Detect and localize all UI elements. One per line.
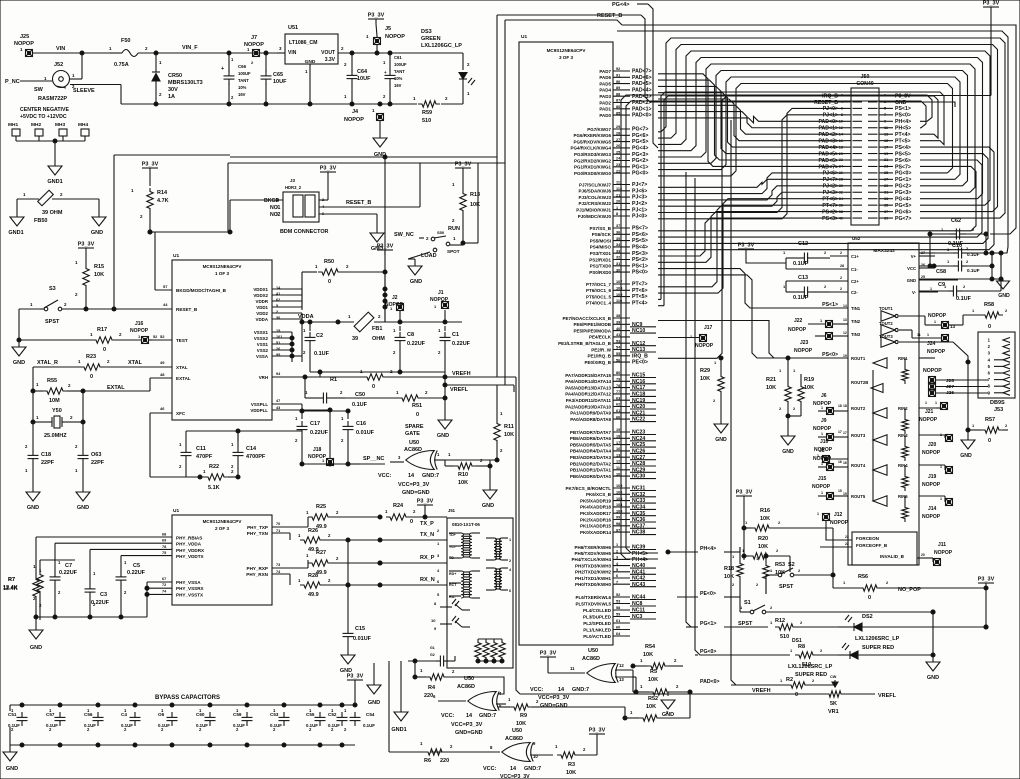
svg-text:PS<7>: PS<7> [632, 226, 648, 232]
svg-text:U52: U52 [852, 236, 861, 241]
ground under BDM [370, 233, 384, 252]
svg-text:MBRS130LT3: MBRS130LT3 [168, 80, 203, 86]
ground db9 [960, 437, 975, 459]
svg-text:4.7K: 4.7K [157, 198, 169, 204]
svg-text:PJ<1>: PJ<1> [823, 113, 838, 119]
svg-text:10K: 10K [760, 516, 770, 522]
svg-text:J4: J4 [352, 109, 359, 115]
resistor R19 10K [788, 368, 814, 416]
chip3 pins PE [558, 314, 656, 366]
svg-text:P3_3V: P3_3V [455, 162, 472, 168]
svg-text:U1: U1 [173, 508, 179, 514]
svg-text:470PF: 470PF [196, 454, 213, 460]
svg-text:J15: J15 [818, 476, 827, 482]
svg-text:J5: J5 [385, 26, 391, 32]
svg-text:0.1UF: 0.1UF [196, 723, 208, 728]
svg-text:GREEN: GREEN [421, 36, 441, 42]
svg-text:VDDA: VDDA [298, 314, 314, 320]
svg-text:22PF: 22PF [91, 460, 105, 466]
chip U52 MAX3243 [848, 236, 919, 565]
svg-text:FB1: FB1 [372, 326, 382, 332]
svg-text:GND: GND [91, 230, 103, 236]
switch S50 RUN/LOAD SPDT [394, 163, 478, 266]
svg-text:PHY_RBIAS: PHY_RBIAS [176, 536, 202, 541]
svg-text:PS<4>: PS<4> [632, 245, 648, 251]
svg-text:VREFH: VREFH [752, 688, 771, 694]
svg-text:R11: R11 [504, 424, 514, 430]
svg-text:VCC=P3_3V: VCC=P3_3V [500, 774, 530, 779]
bus PS0 to ROUT1 [658, 275, 768, 358]
pin BKGD/MODC/TAGHI_B [155, 284, 227, 293]
svg-text:NOPOP: NOPOP [923, 368, 942, 374]
svg-text:ROUT4: ROUT4 [851, 463, 866, 468]
svg-text:TEST: TEST [176, 338, 188, 343]
svg-text:GND:7: GND:7 [572, 687, 589, 693]
svg-text:RX_N: RX_N [420, 577, 435, 583]
svg-text:0.1UF: 0.1UF [956, 296, 972, 302]
svg-text:C10: C10 [952, 243, 962, 249]
svg-text:R5: R5 [650, 669, 657, 675]
svg-text:0.22UF: 0.22UF [59, 570, 78, 576]
text DS2 part [855, 636, 900, 651]
svg-text:R51: R51 [412, 403, 422, 409]
svg-text:MH2: MH2 [31, 122, 41, 128]
svg-text:16V: 16V [238, 92, 246, 97]
svg-text:PB2/ADDR2/DATA2: PB2/ADDR2/DATA2 [570, 461, 612, 466]
svg-text:14: 14 [843, 304, 847, 308]
wire gnd max3243 [919, 253, 1003, 291]
connector J13 NOPOP [899, 313, 956, 329]
svg-text:R15: R15 [94, 264, 104, 270]
ground phy [29, 617, 43, 651]
svg-text:GND:7: GND:7 [479, 713, 496, 719]
svg-text:PAD3: PAD3 [599, 94, 611, 99]
svg-text:BDM CONNECTOR: BDM CONNECTOR [280, 229, 329, 235]
svg-text:PAD4: PAD4 [599, 88, 611, 93]
svg-text:VREFH: VREFH [452, 371, 471, 377]
svg-text:43: 43 [276, 406, 280, 410]
svg-text:FB50: FB50 [34, 218, 47, 224]
svg-text:VREFL: VREFL [450, 387, 469, 393]
svg-text:PJ2/CRS/KWJ2: PJ2/CRS/KWJ2 [578, 201, 611, 206]
capacitor C66 100UF TANT [221, 53, 251, 104]
svg-text:PT<4>: PT<4> [632, 301, 648, 307]
svg-text:PS3/TXD1: PS3/TXD1 [590, 251, 612, 256]
resistor R17 0 [19, 327, 141, 353]
connector J22 NOPOP [788, 318, 848, 333]
capacitor C2 0.1UF [303, 320, 330, 372]
svg-text:3 OF 3: 3 OF 3 [559, 55, 573, 60]
svg-text:LT1086_CM: LT1086_CM [289, 40, 317, 46]
svg-text:J12: J12 [834, 512, 843, 518]
svg-text:TX_N: TX_N [420, 532, 434, 538]
svg-text:G1: G1 [430, 646, 435, 650]
svg-text:R27: R27 [316, 550, 326, 556]
svg-text:IRQ_B: IRQ_B [632, 353, 648, 359]
capacitor C5 0.22UF [116, 556, 146, 617]
svg-text:MH4: MH4 [78, 122, 88, 128]
svg-text:CR50: CR50 [168, 73, 182, 79]
svg-text:C17: C17 [310, 421, 320, 427]
svg-text:0.1UF: 0.1UF [363, 723, 375, 728]
svg-text:GND1: GND1 [8, 230, 23, 236]
svg-text:48: 48 [160, 372, 165, 377]
svg-text:PH<4>: PH<4> [632, 557, 648, 563]
svg-text:VCC:: VCC: [530, 687, 544, 693]
MAX3243 TIN TOUT [843, 304, 893, 339]
ground GND1 mid [391, 661, 408, 733]
svg-text:PK6/XCS_B: PK6/XCS_B [586, 492, 612, 497]
resistor R53 10K [756, 554, 785, 594]
svg-text:10M: 10M [49, 398, 60, 404]
J51 G cap [408, 646, 455, 667]
svg-text:PS<1>: PS<1> [895, 106, 911, 112]
svg-text:R3: R3 [568, 762, 575, 768]
capacitor C65 10UF [261, 53, 288, 104]
connector J11 NOPOP [930, 542, 953, 566]
wire J50 gnd right [893, 102, 955, 107]
net PE<0> [677, 591, 740, 597]
capacitor C50 0.1UF [303, 375, 368, 408]
svg-text:19: 19 [843, 354, 847, 358]
svg-text:PK0/XADDR14: PK0/XADDR14 [580, 530, 612, 535]
svg-text:R4: R4 [428, 685, 436, 691]
svg-text:J53: J53 [994, 407, 1003, 413]
svg-text:510: 510 [780, 634, 789, 640]
svg-text:C3: C3 [100, 592, 107, 598]
capacitor C11 470PF [179, 441, 213, 477]
svg-text:PHY_TXP: PHY_TXP [247, 525, 268, 530]
net label RESET_B top [597, 13, 845, 102]
svg-text:PHY_VSSTX: PHY_VSSTX [176, 592, 204, 597]
svg-text:NOPOP: NOPOP [430, 297, 449, 303]
svg-text:PAD<4>: PAD<4> [818, 145, 838, 151]
svg-text:NOPOP: NOPOP [927, 349, 946, 355]
svg-text:PE1/IRQ_B: PE1/IRQ_B [587, 354, 611, 359]
ground GND bypass right [367, 663, 381, 706]
svg-text:GND: GND [998, 293, 1010, 299]
svg-text:AC86D: AC86D [457, 684, 475, 690]
svg-text:73: 73 [276, 563, 280, 567]
svg-text:PA7/ADDR15/DATA15: PA7/ADDR15/DATA15 [565, 373, 611, 378]
resistor R10 10K [434, 452, 492, 486]
svg-text:P3_3V: P3_3V [540, 651, 557, 657]
svg-text:PG<6>: PG<6> [632, 133, 648, 139]
svg-text:PG<0>: PG<0> [632, 171, 648, 177]
FORCEON block [845, 532, 930, 565]
svg-text:2: 2 [840, 287, 842, 291]
svg-text:0: 0 [410, 519, 413, 525]
svg-text:PH5/TXDV/KWH5: PH5/TXDV/KWH5 [574, 551, 611, 556]
svg-text:0: 0 [795, 692, 798, 698]
svg-text:LXL1206SRC_LP: LXL1206SRC_LP [855, 636, 900, 642]
svg-text:PG<5>: PG<5> [632, 139, 648, 145]
svg-text:GND:7: GND:7 [422, 473, 439, 479]
svg-text:PT<5>: PT<5> [632, 294, 648, 300]
svg-text:GND: GND [77, 505, 89, 511]
svg-text:RIN4: RIN4 [898, 463, 908, 468]
wire reset row [86, 155, 230, 311]
svg-text:NOPOP: NOPOP [919, 417, 938, 423]
svg-text:0.75A: 0.75A [114, 62, 129, 68]
svg-text:25.0MHZ: 25.0MHZ [44, 433, 67, 439]
svg-text:C51: C51 [8, 712, 17, 717]
svg-text:14: 14 [466, 713, 473, 719]
svg-text:PAD<1>: PAD<1> [818, 126, 838, 132]
right NOPOP J20 [922, 433, 953, 456]
svg-text:PT<7>: PT<7> [822, 203, 838, 209]
svg-text:FORCEON: FORCEON [856, 536, 880, 541]
svg-text:S3: S3 [49, 286, 56, 292]
svg-text:R7: R7 [8, 577, 15, 583]
svg-text:R57: R57 [985, 417, 995, 423]
resistor R56 NO_POP [833, 574, 988, 601]
connector J18 NOPOP [308, 447, 334, 466]
svg-text:R55: R55 [47, 378, 57, 384]
ferrite FB50 39 OHM [17, 190, 99, 224]
bus PS1 to TIN1 [658, 269, 808, 308]
note center negative [20, 107, 69, 120]
svg-text:S2: S2 [788, 562, 795, 568]
wire power gnd rail [121, 102, 392, 106]
svg-text:P3_3V: P3_3V [736, 490, 753, 496]
svg-text:17: 17 [838, 430, 842, 434]
resistor R1 [310, 369, 447, 390]
svg-text:PJ0/MDC/KWJ0: PJ0/MDC/KWJ0 [578, 214, 612, 219]
svg-text:J14: J14 [928, 506, 937, 512]
wire reset top rail [230, 155, 497, 159]
svg-text:PS<4>: PS<4> [895, 145, 911, 151]
svg-text:C13: C13 [798, 275, 808, 281]
svg-text:PS6/SCK: PS6/SCK [592, 232, 612, 237]
svg-text:VDDX1: VDDX1 [253, 287, 268, 292]
BDM connector J3 HDR3_2 [264, 178, 377, 235]
svg-text:VCC: VCC [907, 266, 916, 271]
svg-text:MH1: MH1 [8, 122, 18, 128]
svg-text:70: 70 [276, 522, 280, 526]
svg-text:10: 10 [431, 618, 436, 623]
wire VDDA row [298, 313, 354, 324]
ground R29 [714, 424, 728, 443]
svg-text:C2-: C2- [851, 290, 858, 295]
wire trunk PG0 down [695, 178, 724, 655]
svg-text:TANT: TANT [238, 78, 249, 83]
svg-text:10K: 10K [724, 574, 734, 580]
svg-text:1A: 1A [168, 94, 175, 100]
resistor R5 10K [633, 669, 692, 695]
svg-text:PG<5>: PG<5> [895, 203, 911, 209]
svg-text:PS1/TXD0: PS1/TXD0 [590, 264, 612, 269]
svg-text:PT4/IOC1_4: PT4/IOC1_4 [586, 301, 612, 306]
svg-text:GND: GND [368, 700, 380, 706]
svg-text:Y50: Y50 [52, 408, 62, 414]
net PS<0> to ROUT1 [768, 352, 848, 358]
svg-text:PJ<2>: PJ<2> [823, 184, 838, 190]
connector J2 NOPOP [385, 295, 404, 311]
svg-text:0.01UF: 0.01UF [353, 636, 372, 642]
svg-text:U50: U50 [409, 440, 419, 446]
svg-text:44: 44 [163, 302, 168, 307]
J51 choke TX [486, 538, 511, 563]
svg-text:GND:7: GND:7 [524, 766, 541, 772]
svg-text:J20: J20 [928, 442, 937, 448]
svg-text:1: 1 [817, 512, 819, 516]
svg-text:PE5/PIPE0/MODA: PE5/PIPE0/MODA [573, 328, 611, 333]
svg-text:R24: R24 [393, 503, 404, 509]
svg-text:DS1: DS1 [792, 638, 802, 644]
svg-text:PG<0>: PG<0> [700, 649, 716, 655]
svg-text:R17: R17 [97, 327, 107, 333]
svg-text:R16: R16 [760, 508, 770, 514]
svg-text:15: 15 [843, 492, 847, 496]
svg-text:PHY_RXN: PHY_RXN [246, 572, 268, 577]
svg-text:PS0/RXD0: PS0/RXD0 [589, 270, 611, 275]
power P3_3V far right [978, 577, 995, 589]
resistor R59 510 [390, 96, 463, 124]
pin RESET_B [86, 302, 198, 312]
resistor R9 10K [498, 697, 540, 727]
svg-text:SPARE: SPARE [405, 424, 424, 430]
svg-text:PB5/ADDR5/DATA5: PB5/ADDR5/DATA5 [570, 442, 612, 447]
svg-text:PHY_VDDA: PHY_VDDA [176, 542, 202, 547]
capacitor C15 0.01UF [343, 540, 372, 655]
svg-text:SW: SW [34, 87, 44, 93]
ground at C15 [340, 655, 355, 674]
svg-text:20: 20 [921, 553, 925, 557]
LED DS3 GREEN LXL1206GC_LP [421, 29, 475, 104]
svg-text:XTAL_R: XTAL_R [37, 360, 58, 366]
svg-text:C16: C16 [356, 421, 366, 427]
svg-text:PH2/TXD2/KWH2: PH2/TXD2/KWH2 [575, 570, 612, 575]
gate U50 spare AC86D [363, 451, 499, 470]
svg-text:PAD5: PAD5 [599, 81, 611, 86]
svg-text:GATE: GATE [405, 431, 420, 437]
svg-text:P3_3V: P3_3V [142, 162, 159, 168]
power P3_3V gate top [540, 651, 557, 674]
pin XTAL [126, 360, 188, 370]
svg-text:PG<1>: PG<1> [895, 177, 911, 183]
svg-text:TD+: TD+ [449, 533, 456, 537]
svg-text:0: 0 [328, 279, 331, 285]
svg-text:PS<6>: PS<6> [632, 232, 648, 238]
svg-text:GND=GND: GND=GND [455, 730, 483, 736]
chip U1 MC9S12NE64CPV 3 OF 3 [519, 34, 613, 645]
chip U1 MC9S12NE64CPV 1 OF 3 [172, 253, 272, 420]
svg-text:NOPOP: NOPOP [922, 450, 941, 456]
svg-text:PAD<5>: PAD<5> [818, 151, 838, 157]
capacitor C7 0.22UF [50, 543, 78, 617]
chip3 pins PJ [576, 181, 647, 220]
svg-text:PHY_RXP: PHY_RXP [247, 566, 268, 571]
svg-text:DS2: DS2 [862, 614, 873, 620]
svg-text:R28: R28 [308, 573, 318, 579]
svg-text:PL2/SPDLED: PL2/SPDLED [583, 621, 612, 626]
svg-text:0: 0 [90, 374, 93, 380]
chip3 pins PS [589, 224, 648, 276]
ground at S3 [12, 340, 26, 366]
wire VREFH [445, 371, 520, 694]
wire S2 to edge [794, 574, 833, 576]
svg-text:0: 0 [868, 595, 871, 601]
svg-text:PS<5>: PS<5> [895, 151, 911, 157]
svg-text:49: 49 [160, 360, 165, 365]
svg-text:52: 52 [160, 334, 165, 339]
svg-text:R22: R22 [209, 464, 219, 470]
svg-text:C18: C18 [41, 452, 51, 458]
svg-text:PS<6>: PS<6> [895, 158, 911, 164]
resistor R6 220 [420, 741, 470, 764]
svg-text:1: 1 [821, 462, 823, 466]
svg-text:PAD<0>: PAD<0> [700, 679, 720, 685]
net PG<1> [686, 621, 768, 627]
fuse F50 0.75A [109, 38, 156, 68]
svg-text:C14: C14 [246, 446, 257, 452]
svg-text:PG5/RXDV/KWG5: PG5/RXDV/KWG5 [573, 139, 611, 144]
svg-text:PG<6>: PG<6> [895, 209, 911, 215]
right NOPOP J21 [919, 401, 948, 423]
svg-text:RIN3: RIN3 [898, 433, 908, 438]
svg-text:P3_3V: P3_3V [347, 674, 364, 680]
svg-text:PG<7>: PG<7> [632, 127, 648, 133]
svg-text:22: 22 [845, 542, 849, 546]
svg-text:J3: J3 [290, 178, 296, 183]
bypass bottom rail [10, 727, 355, 752]
svg-text:DS3: DS3 [421, 29, 432, 35]
svg-text:PS<3>: PS<3> [822, 216, 838, 222]
svg-text:PAD<4>: PAD<4> [632, 88, 652, 94]
svg-text:U1: U1 [521, 34, 527, 40]
svg-text:EXTAL: EXTAL [176, 376, 191, 381]
svg-text:1: 1 [940, 465, 942, 469]
svg-text:R26: R26 [308, 528, 318, 534]
svg-text:67: 67 [162, 577, 166, 581]
svg-text:52: 52 [153, 335, 157, 339]
svg-text:10K: 10K [700, 376, 710, 382]
gate U50 AC86D mid [433, 676, 506, 736]
svg-text:22PF: 22PF [41, 460, 55, 466]
capacitor C61 100UF TANT [383, 53, 407, 104]
wire right rail to leds [984, 588, 988, 629]
svg-text:CW: CW [830, 675, 837, 679]
connector J16 NOPOP [130, 321, 157, 344]
svg-text:PT7/IOC1_7: PT7/IOC1_7 [586, 282, 612, 287]
crystal Y50 25.0MHZ [33, 391, 85, 439]
wire BKGD to BDM [148, 230, 155, 290]
svg-text:2: 2 [840, 276, 842, 280]
wire pll rail end [348, 463, 360, 465]
svg-text:49.9: 49.9 [308, 592, 319, 598]
svg-text:C60: C60 [196, 712, 205, 717]
capacitor C18 22PF [25, 422, 55, 492]
svg-text:J21: J21 [925, 409, 934, 415]
svg-text:PA6/ADDR14/DATA14: PA6/ADDR14/DATA14 [565, 379, 611, 384]
connector J25 NOPOP [14, 34, 34, 57]
resistor R8 510 [790, 644, 838, 668]
svg-text:PE4/ECLK: PE4/ECLK [589, 335, 612, 340]
svg-text:RD+: RD+ [449, 572, 456, 576]
svg-text:PA1/ADDR9/DATA9: PA1/ADDR9/DATA9 [570, 411, 611, 416]
svg-text:0: 0 [988, 438, 991, 444]
svg-text:GND1: GND1 [391, 727, 406, 733]
svg-text:R52: R52 [648, 696, 658, 702]
right NOPOP J19 [922, 465, 953, 488]
svg-text:0.22UF: 0.22UF [407, 341, 426, 347]
svg-text:R29: R29 [700, 368, 710, 374]
svg-text:PL5/TXDV/KWL5: PL5/TXDV/KWL5 [575, 601, 611, 606]
svg-text:PJ1/MDIO/KWJ1: PJ1/MDIO/KWJ1 [576, 208, 611, 213]
svg-text:MAX3243: MAX3243 [873, 248, 895, 254]
svg-text:0.22UF: 0.22UF [452, 341, 471, 347]
